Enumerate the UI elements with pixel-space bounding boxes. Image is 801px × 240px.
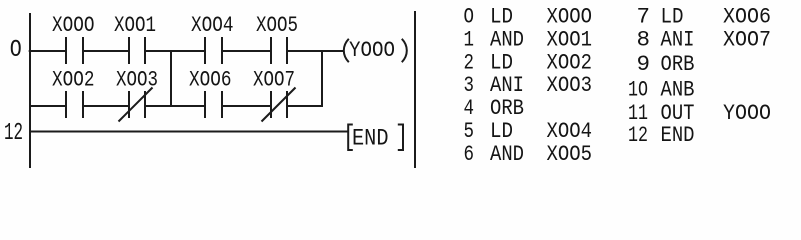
- svg-text:XOO1: XOO1: [114, 13, 156, 38]
- svg-text:END: END: [661, 122, 695, 148]
- svg-text:6: 6: [464, 141, 475, 167]
- contact X007 (NC): [270, 91, 272, 118]
- wire X001 to X004: [145, 50, 205, 52]
- svg-text:XOO2: XOO2: [52, 68, 95, 93]
- svg-text:12: 12: [4, 120, 23, 147]
- contact X003 (NC): [128, 91, 130, 118]
- svg-text:8: 8: [636, 26, 650, 52]
- left power rail: [29, 13, 31, 168]
- wire branch rail to X002: [29, 105, 66, 107]
- contact X000: [65, 37, 67, 64]
- NC slash X003: [119, 88, 153, 122]
- svg-text:YOOO: YOOO: [349, 38, 395, 63]
- wire X005 to coil Y000: [287, 50, 345, 52]
- svg-text:XOO3: XOO3: [547, 72, 593, 98]
- svg-text:1O: 1O: [628, 77, 648, 103]
- wire X007 to node B: [287, 105, 322, 107]
- contact X002: [65, 91, 67, 118]
- svg-text:12: 12: [628, 122, 648, 148]
- wire rung0 rail to X000: [29, 50, 66, 52]
- svg-text:XOO6: XOO6: [189, 68, 232, 93]
- wire X000 to X001: [83, 50, 129, 52]
- wire X002 to X003: [83, 105, 129, 107]
- wire X003 to X006: [145, 105, 205, 107]
- svg-text:XOO5: XOO5: [256, 13, 298, 38]
- contact X005: [270, 37, 272, 64]
- svg-text:ANB: ANB: [661, 77, 695, 103]
- svg-text:XOO3: XOO3: [116, 68, 158, 93]
- END right bracket: [398, 125, 403, 151]
- svg-text:XOO4: XOO4: [191, 13, 234, 38]
- svg-text:END: END: [352, 125, 389, 151]
- svg-text:XOO5: XOO5: [547, 141, 593, 167]
- wire rung12 rail to END: [29, 131, 348, 133]
- wire X006 to X007: [222, 105, 271, 107]
- svg-text:XOO7: XOO7: [723, 26, 771, 52]
- coil Y000 left paren: [344, 39, 349, 62]
- node A junction vertical: [170, 50, 172, 107]
- svg-text:AND: AND: [490, 141, 524, 167]
- contact X004: [204, 37, 206, 64]
- contact X006: [204, 91, 206, 118]
- svg-text:ANI: ANI: [661, 26, 695, 52]
- node B junction vertical: [321, 50, 323, 107]
- right power rail: [414, 11, 416, 168]
- NC slash X007: [262, 88, 296, 122]
- svg-text:XOO7: XOO7: [253, 68, 295, 93]
- svg-text:ORB: ORB: [661, 51, 695, 77]
- svg-text:9: 9: [636, 51, 650, 77]
- coil Y000 right paren: [402, 39, 407, 62]
- END left bracket: [348, 125, 353, 151]
- svg-text:O: O: [10, 37, 22, 64]
- svg-text:XOOO: XOOO: [52, 13, 95, 38]
- svg-text:YOOO: YOOO: [723, 100, 771, 126]
- contact X001: [128, 37, 130, 64]
- wire X004 to X005: [222, 50, 271, 52]
